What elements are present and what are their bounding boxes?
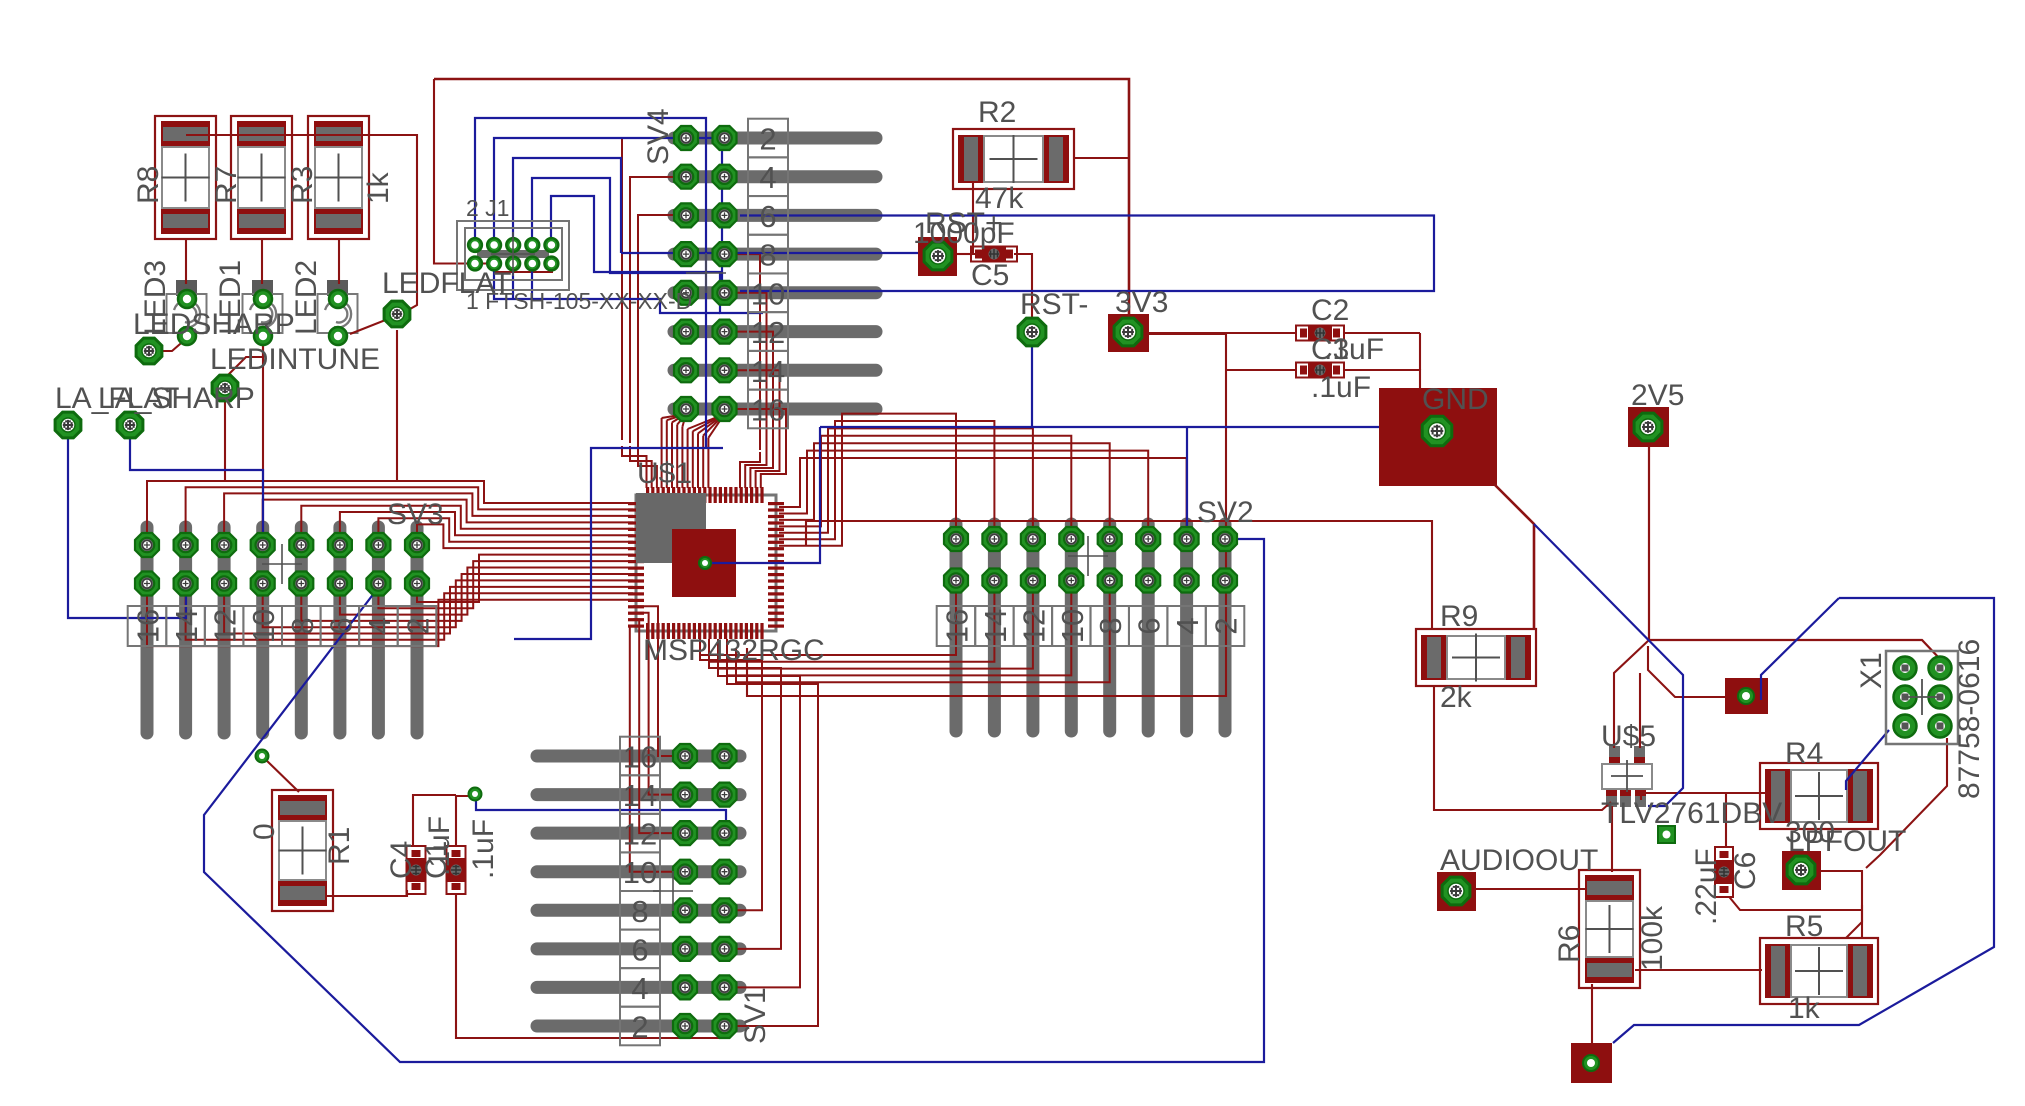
svg-text:87758-0616: 87758-0616 — [1953, 639, 1986, 799]
LED2 pad square — [327, 280, 348, 296]
pads LED2 — [329, 290, 347, 308]
wire C4 up — [413, 795, 456, 847]
wire R9 top left — [806, 521, 1432, 629]
wire SV3 upper staircase — [147, 481, 633, 533]
wire top rail — [434, 79, 1129, 324]
pads J1 — [468, 238, 482, 252]
pads SV1 — [678, 750, 692, 763]
svg-text:6: 6 — [759, 199, 776, 234]
wire blue J1 bottom stubs — [494, 267, 720, 313]
svg-text:LEDINTUNE: LEDINTUNE — [210, 343, 380, 376]
pad LPFOUT — [1782, 851, 1821, 890]
wire SV4 gap verticals — [724, 254, 760, 450]
svg-text:2: 2 — [1209, 617, 1244, 634]
wire GND diagonal — [1494, 484, 1534, 629]
svg-text:C2: C2 — [1311, 294, 1349, 327]
capacitor C1 — [447, 846, 466, 894]
wire R8-R7-R3 tops — [186, 135, 417, 313]
resistor R7 — [231, 116, 292, 239]
header SV2 cross — [1068, 536, 1108, 576]
header SV2 number boxes — [937, 606, 976, 646]
wire blue polygon corner — [1761, 598, 1839, 700]
header SV2 pins — [950, 524, 963, 731]
svg-text:16: 16 — [623, 740, 657, 775]
resistor R6 — [1579, 870, 1640, 988]
resistor R4 — [1760, 763, 1878, 829]
pads LED1 — [254, 290, 272, 308]
wire R2 to C5 — [973, 182, 977, 254]
pad RST+ — [918, 237, 957, 276]
svg-text:2: 2 — [759, 122, 776, 157]
via near C1 — [469, 788, 482, 801]
svg-text:GND: GND — [1422, 383, 1489, 416]
capacitor C2 — [1296, 326, 1344, 341]
wire C3 left — [1226, 369, 1297, 371]
wire R8 to LED3 — [185, 239, 187, 284]
wire blue gnd diagonal — [1534, 524, 1683, 806]
LED LED3 — [167, 294, 207, 333]
header SV3 number boxes — [128, 606, 167, 646]
wire LPFOUT to R5 — [1820, 871, 1862, 938]
pad U$1 center — [699, 557, 711, 569]
resistor R9 — [1416, 629, 1536, 686]
svg-text:.22uF: .22uF — [1690, 848, 1723, 925]
svg-text:C5: C5 — [971, 259, 1009, 292]
svg-text:8: 8 — [631, 894, 648, 929]
svg-text:16: 16 — [751, 393, 785, 428]
svg-text:R8: R8 — [132, 166, 165, 204]
wire blue RST- — [1031, 347, 1033, 427]
wire R6 to pad — [1591, 984, 1593, 1043]
svg-text:10: 10 — [1055, 609, 1090, 643]
wire blue J1 nest 4 — [532, 178, 706, 273]
svg-text:12: 12 — [751, 315, 785, 350]
pad LA_FLAT — [55, 412, 81, 438]
pad LEDINTUNE — [212, 375, 238, 401]
pad 3V3 ring — [1114, 318, 1142, 346]
wire blue J1 nest 2 — [494, 138, 722, 291]
wire blue LA_SHARP — [130, 437, 263, 535]
svg-text:R7: R7 — [210, 166, 243, 204]
capacitor C5 — [971, 247, 1017, 262]
svg-text:R6: R6 — [1553, 925, 1586, 963]
svg-text:SV3: SV3 — [387, 498, 444, 531]
via outline diag — [256, 750, 269, 763]
via right square — [1738, 688, 1754, 704]
svg-text:RST-: RST- — [1020, 288, 1088, 321]
pads LED3 — [178, 290, 196, 308]
svg-text:2k: 2k — [1440, 681, 1473, 714]
J1 pad bar — [477, 250, 549, 258]
LED3 pad square — [176, 280, 197, 296]
svg-text:.1uF: .1uF — [1324, 333, 1384, 366]
wire R5 right up — [1846, 905, 1862, 938]
wire R2 right — [1074, 157, 1129, 159]
capacitor C6 — [1715, 847, 1733, 897]
svg-text:4: 4 — [631, 971, 648, 1006]
svg-text:4: 4 — [759, 160, 776, 195]
svg-text:4: 4 — [362, 617, 397, 634]
wire LEDINTUNE down — [224, 400, 226, 481]
svg-text:X1: X1 — [1855, 652, 1888, 689]
wire R1 via — [264, 758, 299, 792]
svg-text:AUDIOOUT: AUDIOOUT — [1440, 844, 1598, 877]
svg-text:6: 6 — [323, 617, 358, 634]
svg-text:14: 14 — [751, 354, 785, 389]
wire RST+ to C5 — [957, 253, 973, 255]
wire LEDFLAT down — [396, 330, 398, 481]
wire junction to U$5 pin5 — [1639, 673, 1641, 748]
wire C5 to RST- — [1014, 254, 1032, 318]
resistor R5 — [1760, 938, 1878, 1004]
wire C2 vertical — [1419, 333, 1421, 370]
pad via square right — [1725, 678, 1768, 714]
svg-text:16: 16 — [131, 609, 166, 643]
svg-text:1k: 1k — [362, 171, 395, 204]
header SV3 pins — [141, 527, 154, 733]
header SV4 cross — [686, 253, 726, 293]
pad 2V5 — [1628, 407, 1669, 447]
svg-text:14: 14 — [623, 778, 657, 813]
pad 2V5 ring — [1634, 413, 1662, 441]
LED LED2 — [318, 294, 358, 333]
svg-text:14: 14 — [169, 609, 204, 643]
header SV1 pins — [537, 750, 740, 763]
svg-text:R3: R3 — [286, 166, 319, 204]
via bottom square — [1583, 1055, 1599, 1071]
svg-text:LA_SHARP: LA_SHARP — [98, 382, 255, 415]
board outline blue loop — [204, 539, 1264, 1062]
wire blue J1 nest 5 — [551, 196, 763, 313]
wire blue LA_FLAT — [68, 437, 186, 618]
wire blue drop SV2 col4 — [1186, 427, 1188, 530]
wire junction to U$5 pin1 — [1614, 640, 1649, 748]
pad LA_SHARP — [117, 412, 143, 438]
wire U$1 to SV2 bottom bus — [700, 588, 956, 655]
wire C6 bottom — [1726, 893, 1862, 910]
pad GND ring — [1422, 416, 1452, 446]
svg-text:MSP432RGC: MSP432RGC — [643, 634, 825, 667]
svg-text:4: 4 — [1170, 617, 1205, 634]
svg-text:1k: 1k — [1788, 992, 1821, 1025]
svg-text:C4: C4 — [385, 841, 418, 879]
wire R7 to LED1 — [261, 239, 263, 284]
svg-text:10: 10 — [751, 276, 785, 311]
resistor R2 — [953, 129, 1074, 189]
svg-text:LEDSHARP: LEDSHARP — [133, 308, 295, 341]
microcontroller U$1 MSP432RGC — [636, 495, 776, 631]
LED1 pad square — [252, 280, 273, 296]
svg-text:8: 8 — [285, 617, 320, 634]
pad LEDFLAT — [384, 301, 410, 327]
svg-text:12: 12 — [623, 817, 657, 852]
wire blue U$1 left — [514, 448, 723, 639]
wire C3 right — [1344, 370, 1420, 389]
wire blue J1 nest 1 — [475, 118, 706, 448]
wire SV3 lower staircase — [417, 555, 633, 602]
wire R9 to U$5 — [1434, 686, 1611, 810]
svg-text:U$5: U$5 — [1601, 720, 1656, 753]
wire C6 tap — [1725, 793, 1727, 848]
pad 3V3 — [1108, 314, 1149, 352]
wire SV4 left staircase to U$1 — [622, 446, 647, 488]
wire C2 right — [1344, 332, 1420, 334]
svg-text:R1: R1 — [323, 827, 356, 865]
resistor R1 — [272, 790, 333, 911]
svg-text:8: 8 — [1093, 617, 1128, 634]
svg-text:R9: R9 — [1440, 600, 1478, 633]
svg-text:0: 0 — [248, 823, 281, 840]
svg-text:R5: R5 — [1785, 910, 1823, 943]
svg-text:2 J1: 2 J1 — [466, 195, 509, 221]
pad via square bottom — [1571, 1043, 1612, 1083]
svg-text:6: 6 — [631, 932, 648, 967]
wire 3V3 down — [747, 334, 1226, 696]
svg-text:.1uF: .1uF — [1311, 371, 1371, 404]
wire R3 to LED2 — [338, 239, 340, 284]
wire blue via to SV1 — [476, 796, 726, 830]
wire C1 to SV1 — [456, 893, 726, 1038]
wire 3V3 to C2 — [1148, 332, 1297, 334]
svg-text:SV2: SV2 — [1197, 496, 1254, 529]
wire U$1 to SV2 top staircase — [779, 458, 1187, 530]
pads SV2 — [950, 532, 963, 546]
pads SV4 — [679, 132, 693, 145]
wire rail to J1 — [434, 79, 553, 272]
wire R1 to C4 — [325, 890, 407, 896]
pad GND — [1379, 388, 1497, 486]
wire U$5 to R4 — [1641, 793, 1766, 800]
wire U$1 to SV1 right bundle — [700, 639, 762, 910]
wire U$1 to SV1 left bundle — [633, 606, 673, 756]
wire junction to pad — [1648, 646, 1725, 697]
svg-text:6: 6 — [1132, 617, 1167, 634]
pad AUDIOOUT — [1437, 872, 1476, 911]
svg-text:1 FTSH-105-XX-XX-D: 1 FTSH-105-XX-XX-D — [466, 288, 692, 314]
pad LPFOUT ring — [1787, 856, 1815, 884]
svg-text:2: 2 — [631, 1010, 648, 1045]
wire SV4 gap staircase to U$1 — [740, 452, 760, 488]
resistor R3 — [308, 116, 369, 239]
wire blue left vertical — [705, 427, 820, 563]
wire SV4 bottom fan to U$1 — [662, 414, 686, 418]
wire LED1 down — [262, 336, 264, 533]
pad RST- ring — [1018, 318, 1046, 346]
svg-text:16: 16 — [940, 609, 975, 643]
svg-text:10: 10 — [246, 609, 281, 643]
svg-text:12: 12 — [1016, 609, 1051, 643]
connector X1 outline — [1886, 651, 1958, 744]
op-amp U$5 — [1609, 746, 1620, 766]
wire U$5 to R6 — [1611, 806, 1613, 872]
svg-text:12: 12 — [208, 609, 243, 643]
wire LED1 to pad — [228, 336, 263, 375]
header SV4 pins — [674, 132, 876, 145]
wire LED2 to LEDFLAT — [350, 319, 388, 334]
wire blue gnd rail — [820, 426, 1379, 428]
wire 2V5 down — [1649, 446, 1940, 659]
pad RST+ ring — [924, 242, 952, 270]
svg-text:100k: 100k — [1636, 905, 1669, 971]
wire X1 to LPF net — [1866, 738, 1947, 868]
wire LED3 to pad — [152, 338, 187, 351]
wire blue RST+ — [621, 252, 918, 254]
svg-text:U$1: U$1 — [637, 457, 692, 490]
svg-text:8: 8 — [759, 238, 776, 273]
svg-text:LPFOUT: LPFOUT — [1788, 825, 1906, 858]
svg-text:.1uF: .1uF — [423, 816, 456, 876]
svg-text:LED2: LED2 — [290, 260, 323, 335]
pad AUDIOOUT ring — [1442, 877, 1470, 905]
svg-text:2: 2 — [401, 617, 436, 634]
via small green square — [1658, 826, 1675, 843]
svg-text:SV1: SV1 — [739, 987, 772, 1044]
wire via to C1 — [456, 796, 474, 847]
header SV4 number boxes — [748, 119, 788, 158]
pad LEDSHARP — [136, 338, 162, 364]
pads SV3 — [141, 538, 154, 552]
svg-text:1000pF: 1000pF — [913, 217, 1015, 250]
svg-text:14: 14 — [978, 609, 1013, 643]
header SV1 cross — [653, 871, 693, 911]
svg-text:2V5: 2V5 — [1631, 379, 1684, 412]
pads X1 — [1894, 657, 1917, 680]
wire R6 to R5 — [1635, 969, 1762, 971]
wire AUDIOOUT to R6 — [1475, 888, 1586, 890]
svg-text:.1uF: .1uF — [467, 819, 500, 879]
LED LED1 — [243, 294, 283, 333]
wire blue J1 nest 3 — [513, 158, 621, 253]
wire SV4 row6 left — [638, 215, 686, 446]
header SV1 number boxes — [620, 737, 660, 776]
wire blue X1 to R4 — [1846, 730, 1889, 790]
svg-text:10: 10 — [623, 855, 657, 890]
wire SV4 row4 left — [630, 177, 686, 443]
capacitor C4 — [407, 846, 426, 894]
svg-text:SV4: SV4 — [642, 108, 675, 165]
header SV3 cross — [262, 544, 302, 584]
connector J1 outline — [457, 221, 569, 290]
svg-text:3V3: 3V3 — [1115, 286, 1168, 319]
resistor R8 — [155, 116, 216, 239]
wire SV4 row2 left — [622, 138, 686, 440]
board outline right — [1613, 598, 1994, 1043]
capacitor C3 — [1296, 363, 1344, 378]
svg-text:R4: R4 — [1785, 737, 1823, 770]
wire blue SV4 row6-row10 — [740, 216, 1434, 292]
svg-text:C6: C6 — [1729, 852, 1762, 890]
svg-text:TLV2761DBV: TLV2761DBV — [1601, 797, 1782, 830]
svg-text:R2: R2 — [978, 96, 1016, 129]
